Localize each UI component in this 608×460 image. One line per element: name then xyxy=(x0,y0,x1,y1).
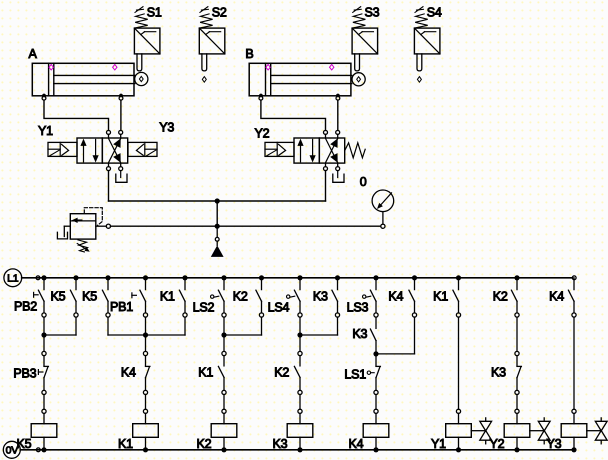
label 0 gauge xyxy=(360,175,367,189)
power rail 0V terminal xyxy=(3,441,20,458)
pushbutton contact PB1 xyxy=(140,278,148,317)
svg-text:K5: K5 xyxy=(82,290,97,304)
relay contact K3 (seal-in) xyxy=(332,278,340,317)
label coil K5 xyxy=(17,437,32,451)
label LS3 row1 xyxy=(347,300,369,314)
cylinder B position markers xyxy=(266,64,334,70)
svg-text:LS2: LS2 xyxy=(193,301,215,315)
label K5 row1 xyxy=(51,290,66,304)
label K1 row2 xyxy=(198,365,213,379)
relay NC contact K3 row2 xyxy=(515,317,522,409)
label coil Y2 xyxy=(490,437,505,451)
wire branch K5b2 to node xyxy=(44,317,76,335)
solenoid valve symbol at x=458.5 xyxy=(471,418,491,444)
pushbutton PB1 actuator xyxy=(132,293,137,298)
svg-text:K3: K3 xyxy=(273,437,288,451)
compressed air source xyxy=(211,226,224,257)
relay contact K4 xyxy=(568,278,576,317)
wire branch K4b14 down xyxy=(573,317,575,409)
solenoid pilot Y3 side xyxy=(128,142,157,156)
wire branch K3b9 to node xyxy=(300,317,338,335)
label S3 xyxy=(365,5,380,19)
pipe valve V2 supply drop xyxy=(325,171,327,201)
relay NC contact K4 row2 xyxy=(143,335,150,409)
limit switch NC contact LS1 xyxy=(374,354,381,409)
wire branch LS4 to node xyxy=(299,317,301,335)
pipe supply manifold upper xyxy=(109,200,326,202)
svg-text:K2: K2 xyxy=(233,290,248,304)
relay contact K2 row2 xyxy=(294,335,302,409)
label K3 row1 xyxy=(313,290,328,304)
valve V1 body xyxy=(77,138,128,163)
relay contact K3 mid xyxy=(370,329,376,341)
svg-text:K1: K1 xyxy=(198,365,213,379)
label Y2 xyxy=(255,127,270,141)
label cylinder A xyxy=(29,47,38,61)
label coil K1 xyxy=(118,437,133,451)
label K1 row1 xyxy=(433,290,448,304)
svg-text:0: 0 xyxy=(360,175,367,189)
svg-text:K3: K3 xyxy=(491,365,506,379)
label LS2 row1 xyxy=(193,301,215,315)
pipe cylinder B right port to valve V2 xyxy=(337,100,339,130)
pushbutton PB2 actuator xyxy=(34,292,39,297)
limit switch S1 plunger stem xyxy=(137,54,142,71)
svg-text:K5: K5 xyxy=(17,437,32,451)
label K4 row1 xyxy=(388,290,403,304)
svg-text:S3: S3 xyxy=(365,5,380,19)
svg-text:LS1: LS1 xyxy=(344,367,366,381)
junction lower manifold xyxy=(215,224,220,229)
junction upper manifold xyxy=(215,198,220,203)
svg-text:K2: K2 xyxy=(493,290,508,304)
label LS4 row1 xyxy=(268,301,290,315)
limit switch valve S4 box xyxy=(414,28,440,54)
power rail L1 terminal xyxy=(4,269,22,287)
label K4 row2 xyxy=(121,365,136,379)
limit switch S3 return spring xyxy=(352,7,365,28)
label PB2 row1 xyxy=(14,299,37,313)
valve V1 parallel-flow position xyxy=(80,139,98,163)
junction node rung3 xyxy=(221,332,226,337)
limit switch S4 plunger stem xyxy=(417,54,422,71)
wire branch K1b5 to node xyxy=(146,317,186,335)
relay contact K1 row2 xyxy=(218,335,226,409)
wire branch PB2 to node xyxy=(43,317,45,335)
label LS1 xyxy=(344,367,366,381)
junctions on rail 0V xyxy=(41,447,576,452)
pushbutton NO contact PB2 xyxy=(38,278,46,317)
label K2 row1 xyxy=(493,290,508,304)
label S2 xyxy=(212,5,227,19)
svg-text:B: B xyxy=(245,47,253,61)
cylinder B rod end roller xyxy=(352,73,365,86)
relief valve outlet xyxy=(96,224,111,228)
limit switch LS1 roller xyxy=(367,371,374,374)
label coil K4 xyxy=(349,437,364,451)
svg-text:PB3: PB3 xyxy=(13,367,36,381)
junction node rung2 xyxy=(143,332,148,337)
svg-text:Y2: Y2 xyxy=(490,437,505,451)
relief valve vent xyxy=(57,226,70,239)
solenoid coil Y1 xyxy=(446,409,472,450)
limit switch S4 return spring xyxy=(415,7,428,28)
svg-text:PB2: PB2 xyxy=(14,299,37,313)
valve V2 exhaust xyxy=(333,171,344,183)
relay contact K1 (seal-in) xyxy=(179,278,187,317)
limit switch S3 plunger stem xyxy=(355,54,360,71)
label K1 row1 xyxy=(160,290,175,304)
relief valve spring xyxy=(77,240,90,252)
label S1 xyxy=(147,5,162,19)
svg-text:PB1: PB1 xyxy=(110,300,133,314)
pushbutton PB3 actuator xyxy=(38,370,43,375)
relief valve pilot line xyxy=(84,208,102,226)
junction node rung5 xyxy=(373,351,378,356)
relay contact K5 xyxy=(102,278,110,317)
relay contact K1 xyxy=(453,278,461,317)
label K3 mid xyxy=(352,327,367,341)
wire branch PB1 to node xyxy=(145,317,147,335)
label Y3 xyxy=(159,121,174,135)
valve V2 return spring xyxy=(345,143,366,158)
pushbutton NC contact PB3 xyxy=(42,335,49,409)
valve V2 body xyxy=(294,138,345,163)
pressure gauge xyxy=(372,190,394,228)
limit switch S2 return spring xyxy=(200,7,213,28)
svg-text:K1: K1 xyxy=(118,437,133,451)
svg-text:Y1: Y1 xyxy=(38,124,53,138)
svg-text:Y1: Y1 xyxy=(431,437,446,451)
wire rail 0V xyxy=(20,448,574,452)
relay coil K3 xyxy=(287,409,313,450)
svg-text:S2: S2 xyxy=(212,5,227,19)
limit switch contact LS2 xyxy=(218,278,226,317)
wire branch K2b7 to node xyxy=(224,317,262,335)
svg-text:Y2: Y2 xyxy=(255,127,270,141)
label K3 row2 xyxy=(491,365,506,379)
svg-text:K4: K4 xyxy=(349,437,364,451)
wire branch K5b3 to node xyxy=(108,317,146,335)
svg-text:K2: K2 xyxy=(197,437,212,451)
label S4 xyxy=(427,5,442,19)
svg-text:S4: S4 xyxy=(427,5,442,19)
limit switch valve S2 box xyxy=(199,28,225,54)
label coil K3 xyxy=(273,437,288,451)
wire branch LS2 to node xyxy=(223,317,225,335)
svg-text:K4: K4 xyxy=(549,290,564,304)
valve V2 crossed-flow position xyxy=(326,138,338,162)
svg-text:A: A xyxy=(29,47,38,61)
pipe lower manifold xyxy=(111,225,381,227)
svg-text:K4: K4 xyxy=(121,365,136,379)
label PB3 xyxy=(13,367,36,381)
limit switch S4 idle marker xyxy=(417,77,421,83)
limit switch S2 plunger stem xyxy=(202,54,207,71)
limit switch contact LS3 xyxy=(370,278,378,317)
svg-text:Y3: Y3 xyxy=(159,121,174,135)
limit switch LS2 roller xyxy=(211,295,219,298)
label Y1 xyxy=(38,124,53,138)
limit switch LS4 roller xyxy=(287,295,295,298)
svg-text:LS3: LS3 xyxy=(347,300,369,314)
cylinder A rod end roller xyxy=(135,72,148,85)
label K5 row1 xyxy=(82,290,97,304)
limit switch S1 return spring xyxy=(135,7,148,28)
svg-text:L1: L1 xyxy=(7,273,19,285)
relay contact K2 xyxy=(511,278,519,317)
label cylinder B xyxy=(245,47,253,61)
cylinder A position markers xyxy=(49,64,117,70)
pipe cylinder A left port to valve V1 xyxy=(44,100,109,130)
wire rail L1 xyxy=(22,276,576,280)
svg-text:K4: K4 xyxy=(388,290,403,304)
valve V2 parallel-flow position xyxy=(297,139,315,163)
label K4 row1 xyxy=(549,290,564,304)
wire LS3 to K3 contact xyxy=(375,317,377,328)
relay coil K4 xyxy=(363,409,389,450)
solenoid valve symbol at x=517.0 xyxy=(530,418,550,444)
relay coil K2 xyxy=(211,409,237,450)
label coil Y3 xyxy=(547,437,562,451)
label PB1 row1 xyxy=(110,300,133,314)
relay contact K2 (seal-in) xyxy=(256,278,264,317)
junction node rung4 xyxy=(297,332,302,337)
cylinder B body xyxy=(249,63,352,96)
label K2 row1 xyxy=(233,290,248,304)
solenoid pilot Y1 side xyxy=(48,142,77,156)
svg-text:K3: K3 xyxy=(352,327,367,341)
wire branch K4b11 to node xyxy=(376,317,415,354)
limit switch S2 idle marker xyxy=(202,77,206,83)
limit switch contact LS4 xyxy=(294,278,302,317)
relay contact K4 (seal-in) xyxy=(409,278,417,317)
valve V1 exhaust xyxy=(116,171,127,183)
valve V1 crossed-flow position xyxy=(109,138,121,162)
pipe cylinder B left port to valve V2 xyxy=(261,100,326,130)
pipe valve V1 supply drop xyxy=(108,171,110,201)
relief valve body xyxy=(70,214,96,239)
label K2 row2 xyxy=(274,365,289,379)
junctions on rail L1 xyxy=(41,275,519,280)
cylinder A ports xyxy=(42,94,123,101)
relay coil K1 xyxy=(133,409,159,450)
svg-text:K5: K5 xyxy=(51,290,66,304)
junction node rung1 xyxy=(41,332,46,337)
svg-text:K3: K3 xyxy=(313,290,328,304)
svg-text:S1: S1 xyxy=(147,5,162,19)
relay coil K5 xyxy=(31,409,57,450)
limit switch LS3 roller xyxy=(363,295,371,298)
svg-text:K1: K1 xyxy=(433,290,448,304)
valve V1 ports xyxy=(107,130,123,170)
limit switch valve S3 box xyxy=(352,28,378,54)
cylinder A body xyxy=(32,63,135,96)
wire K3 contact to node xyxy=(375,341,377,354)
svg-text:K2: K2 xyxy=(274,365,289,379)
pipe cylinder A right port to valve V1 xyxy=(120,100,122,130)
solenoid coil Y2 xyxy=(504,409,530,450)
solenoid coil Y3 xyxy=(561,409,587,450)
solenoid valve symbol at x=574.0 xyxy=(587,418,607,444)
wire branch K1b12 down xyxy=(458,317,460,409)
limit switch valve S1 box xyxy=(134,28,160,54)
pipe manifold link xyxy=(216,201,218,226)
relay contact K5 (seal-in) xyxy=(70,278,78,317)
label coil Y1 xyxy=(431,437,446,451)
svg-text:LS4: LS4 xyxy=(268,301,290,315)
label coil K2 xyxy=(197,437,212,451)
cylinder B ports xyxy=(259,94,340,101)
svg-text:K1: K1 xyxy=(160,290,175,304)
solenoid pilot Y2 side xyxy=(265,142,294,156)
valve V2 ports xyxy=(324,130,340,170)
